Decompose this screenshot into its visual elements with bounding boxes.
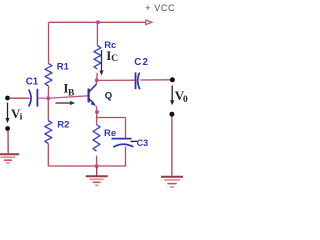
svg-text:C: C	[111, 54, 118, 64]
wire input down	[7, 131, 9, 153]
node output terminal top	[170, 77, 175, 82]
node Re rail junction	[95, 164, 99, 168]
VCC arrow	[146, 20, 152, 25]
wire collector to C2	[97, 79, 135, 81]
svg-text:B: B	[68, 88, 75, 98]
wire emitter junction to Re	[96, 112, 98, 125]
wire base	[50, 96, 88, 98]
wire bias to R2	[47, 98, 49, 120]
ground left	[0, 154, 19, 163]
wire collector stub	[95, 80, 97, 84]
svg-text:0: 0	[183, 95, 188, 105]
arrow IB	[56, 102, 71, 104]
transistor Q1	[89, 84, 97, 106]
capacitor C3	[112, 138, 132, 140]
wire R2 to bottom rail	[47, 144, 49, 167]
node bias junction	[46, 96, 50, 100]
capacitor C1	[29, 90, 31, 107]
wire top rail	[49, 21, 147, 23]
capacitor C2	[135, 72, 137, 89]
svg-text:C1: C1	[26, 77, 39, 88]
svg-text:+ VCC: + VCC	[145, 3, 175, 13]
wire input to C1	[9, 97, 30, 99]
node rail junction	[96, 20, 100, 24]
node emitter junction	[95, 110, 99, 114]
wire rail to Rc	[96, 22, 98, 45]
node collector junction	[95, 78, 99, 82]
wire C1 to bias node	[38, 97, 46, 99]
wire C3 branch vertical top	[125, 118, 127, 139]
wire bottom rail	[48, 165, 127, 167]
wire emitter junction to C3 branch	[97, 117, 126, 119]
svg-text:C3: C3	[137, 138, 149, 148]
svg-text:i: i	[20, 112, 23, 122]
resistor R2	[45, 121, 52, 144]
svg-text:R1: R1	[57, 61, 70, 72]
wire C2 to output node	[140, 79, 171, 81]
label pointer C3	[131, 140, 138, 142]
svg-text:C2: C2	[134, 57, 149, 68]
resistor Rc	[94, 46, 101, 70]
resistor R1	[45, 64, 52, 86]
arrow Vi	[7, 103, 9, 119]
arrow Ic	[101, 50, 103, 71]
svg-text:Q: Q	[105, 90, 112, 101]
node output terminal bottom	[169, 112, 174, 117]
wire C3 branch vertical bottom	[125, 147, 127, 167]
wire R1 to bias node	[47, 86, 49, 98]
arrow V0	[171, 85, 173, 100]
ground right	[161, 177, 183, 187]
wire Re to bottom rail	[96, 156, 98, 166]
ground center	[86, 166, 108, 185]
node input terminal top	[5, 96, 10, 101]
svg-text:Re: Re	[104, 128, 116, 139]
wire left vertical top	[48, 22, 50, 63]
resistor Re	[93, 125, 100, 152]
svg-text:R2: R2	[57, 120, 69, 131]
wire output down	[171, 117, 173, 176]
wire Rc to collector	[96, 73, 98, 80]
node input terminal bottom	[5, 126, 10, 131]
wire emitter stub	[95, 106, 98, 112]
